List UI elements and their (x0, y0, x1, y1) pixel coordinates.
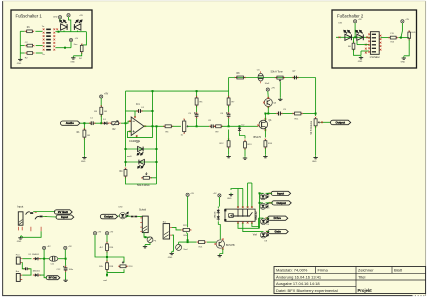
resistor R2 series trimmer (110, 122, 121, 125)
wire R1 to ground (83, 138, 85, 155)
resistor R11 output series (292, 112, 303, 115)
wire FS2 R8 bottom to ground (404, 40, 409, 56)
wire collector riser (218, 225, 220, 240)
svg-text:+9V: +9V (358, 19, 362, 21)
ground Q2 (218, 254, 222, 257)
ground power (63, 278, 67, 281)
pin marks J2 (140, 218, 142, 232)
wire bias vcc b down (218, 197, 220, 207)
transistor Q2 BC547 (216, 240, 224, 248)
resistor R9 series (214, 125, 223, 128)
resistor R14 source (264, 139, 267, 149)
wire feedback branch (126, 110, 137, 112)
resistor R16 divider upper (106, 242, 109, 253)
title block frame (274, 267, 426, 294)
wire divider bottom (106, 271, 108, 277)
wire FS2 LED row (336, 36, 370, 38)
wire rail A horizontal (126, 90, 229, 92)
connector J3 exp jack (163, 224, 170, 239)
wire drain output line (265, 113, 276, 115)
wire vactrol pin risers (237, 189, 239, 208)
supply symbol FS2 +9V b (401, 20, 404, 23)
svg-text:rot: rot (136, 141, 139, 144)
switch contact jack tip (26, 212, 34, 215)
LED L8 status (120, 212, 129, 219)
wire L8b wiring (260, 231, 264, 233)
svg-text:Output: Output (104, 215, 113, 219)
transistor Q1 BS170 (259, 120, 268, 129)
ground FS1 left (18, 58, 22, 61)
wire vcc to R3 (100, 98, 102, 106)
svg-text:GND: GND (168, 257, 173, 259)
svg-text:1N4148: 1N4148 (214, 212, 216, 219)
svg-text:+9V: +9V (405, 19, 409, 21)
potentiometer Volume (314, 117, 317, 128)
svg-text:1N4001: 1N4001 (33, 271, 41, 273)
ground J3 (170, 252, 174, 255)
wire clamp right branch down (244, 136, 246, 139)
wire input line (80, 122, 90, 124)
svg-text:D1 1N4001: D1 1N4001 (29, 254, 40, 256)
svg-text:1M: 1M (87, 135, 90, 137)
svg-text:GND: GND (17, 63, 22, 65)
diode D6 battery isolation (33, 273, 40, 276)
svg-text:Schalt: Schalt (139, 208, 146, 211)
pin marks FS2 switch right edge (380, 35, 382, 37)
wire volume wiper to output tag (321, 121, 331, 123)
svg-text:BS170: BS170 (254, 136, 262, 139)
wire J3 to ground (172, 235, 174, 251)
wire Q1 source down (264, 129, 266, 138)
wire vactrol to led group (252, 223, 260, 227)
wire C9 to R11 (282, 113, 292, 115)
capacitor C6 electrolytic on rail B (258, 71, 263, 83)
connector X1 Audio input tag (60, 121, 80, 125)
svg-text:+9V: +9V (97, 231, 101, 233)
wire R6 to fuzz pot (172, 125, 181, 127)
wire R1 branch down (83, 123, 85, 130)
wire FS2 vcc to led row (354, 23, 356, 37)
wire FS2 switch feeds (357, 44, 369, 46)
connector tag Output net (100, 214, 117, 219)
svg-text:IC1: IC1 (136, 103, 140, 106)
wire R21 to trimmer node (179, 241, 197, 243)
resistor R7 chain2 (227, 96, 230, 107)
resistor R1 input bias (83, 128, 86, 139)
wire R13 ground stub (244, 149, 246, 156)
wire Q3 to output line (267, 107, 269, 114)
LED L6 indicator (260, 203, 268, 209)
svg-text:vref: vref (103, 279, 107, 282)
connector tag Input net (56, 215, 74, 219)
supply symbol FS1 +9V b (67, 14, 70, 17)
LED FS1 LED2 (74, 20, 81, 30)
wire battery to D6 (22, 274, 31, 276)
wire LED row 2 (126, 161, 157, 163)
wire R22 down to base node (186, 232, 187, 242)
connector tag Drive vactrol (268, 216, 288, 220)
wire R9 to gate (222, 125, 258, 127)
wire L6 to tag2 (266, 202, 273, 204)
wire plus input down (128, 131, 132, 137)
resistor FS1 R1 (25, 30, 34, 33)
op-amp IC1 CA3080E (131, 117, 144, 136)
connector J1 input jack (18, 212, 23, 225)
capacitor C6a chain2 electrolytic (226, 112, 230, 118)
connector tag Output vactrol (272, 201, 291, 205)
ground tone wiper (278, 98, 282, 101)
wire contact to J2 (137, 216, 142, 218)
wire L5 to tag1 (266, 192, 273, 194)
wire rail A to rail B link (228, 78, 230, 92)
resistor FS1 R5 (80, 44, 83, 54)
svg-text:50k A Tone: 50k A Tone (271, 71, 284, 74)
resistor FS2 R6 (352, 41, 355, 51)
diode D7 bias (217, 209, 220, 215)
wire vcc to Q3 (267, 91, 270, 98)
page border left (2, 1, 4, 296)
svg-text:GND: GND (312, 161, 317, 163)
svg-text:Fußschalter 1: Fußschalter 1 (16, 14, 43, 19)
svg-text:Audio: Audio (66, 121, 74, 125)
wire FS1 left taps (20, 30, 24, 32)
svg-text:+9V: +9V (109, 231, 113, 233)
wire rail B horizontal (229, 77, 316, 79)
diode D5 polarity protection (33, 257, 40, 260)
wire vactrol bottom drops (238, 223, 260, 228)
wire pill to battery line (44, 275, 47, 278)
svg-text:Firma: Firma (318, 268, 329, 273)
trimmer P3 (147, 237, 153, 243)
wire C13 link (22, 262, 24, 269)
supply symbol +9V divider a (93, 232, 96, 235)
connector X2 Output tag (331, 120, 351, 125)
wire trimmer loop bottom (107, 269, 124, 272)
node A junction (100, 122, 102, 124)
wire chain2 mid (228, 106, 230, 112)
pin marks jack bottom (19, 227, 41, 231)
wire rail B down to volume (315, 78, 317, 117)
diode D8 bias (217, 215, 220, 221)
ground FS2 left (359, 56, 363, 59)
svg-text:Drive: Drive (274, 216, 282, 220)
wire clip right rail (156, 126, 158, 184)
transistor Q3 buffer (264, 99, 272, 107)
wire op-amp bottom leg (131, 137, 153, 139)
svg-text:Input: Input (277, 191, 284, 195)
wire chain1 drop (196, 91, 198, 97)
ground under R14 (263, 155, 267, 158)
supply symbol FS1 +9V a (58, 16, 61, 19)
resistor FS1 R2 (25, 44, 34, 47)
svg-text:+9V: +9V (213, 193, 217, 195)
switch contact jack ring (35, 216, 43, 220)
svg-text:9V Out: 9V Out (49, 277, 57, 280)
LED D4 clipping reverse (138, 159, 145, 168)
wire Q1 drain up (264, 114, 266, 121)
wire Q2 emitter to ground (220, 249, 223, 254)
trimmer P1 vref (118, 265, 128, 268)
svg-text:CA3080E: CA3080E (129, 139, 140, 143)
wire divider top (106, 235, 108, 244)
svg-text:+9V: +9V (47, 246, 51, 248)
supply symbol +9V bias b (218, 194, 221, 197)
svg-text:Zeichner: Zeichner (358, 268, 374, 273)
connector J2 switch jack (142, 216, 148, 233)
supply symbol +9V power b (64, 246, 67, 249)
connector X3 DC power (16, 257, 20, 264)
svg-text:+9V: +9V (271, 87, 275, 89)
ground mid cluster (143, 245, 147, 248)
wire R3 down to node A (100, 115, 102, 123)
switch FS1 S1 pin marks left column (43, 28, 45, 30)
svg-text:+9V: +9V (79, 15, 83, 17)
svg-text:Input: Input (61, 215, 68, 219)
svg-text:GND: GND (81, 161, 86, 163)
LED L8b indicator (260, 232, 268, 238)
wire FS2 switch to R7 (381, 37, 389, 39)
svg-text:Output: Output (276, 201, 286, 205)
supply symbol FS1 +9V c (69, 38, 72, 41)
wire op-amp output (144, 125, 160, 127)
wire bias vcc a down (187, 196, 189, 227)
connector tag Input vactrol (271, 191, 290, 195)
wire D6 up to vcc node (40, 259, 44, 275)
svg-text:50 B Volume: 50 B Volume (310, 120, 313, 134)
wire fuzz pot to C8 (187, 125, 209, 127)
svg-text:NSL32: NSL32 (254, 211, 258, 220)
svg-text:Projekt: Projekt (358, 288, 373, 293)
svg-text:Vref: Vref (183, 248, 187, 251)
LED FS2 LED3 (344, 31, 351, 41)
supply symbol +9V input (100, 95, 103, 98)
wire feedback to right leg (142, 110, 152, 112)
svg-text:+9V: +9V (68, 246, 72, 248)
capacitor C5 chain1 electrolytic (194, 112, 198, 118)
svg-text:Dim: Dim (74, 44, 78, 46)
wire Q2 base line (207, 241, 216, 243)
wire R11 to volume (303, 113, 316, 115)
wire chain2 to signal line (228, 118, 230, 126)
svg-text:Fußschalter 2: Fußschalter 2 (337, 14, 364, 19)
wire stage2 signal line (160, 125, 164, 127)
svg-text:Bat: Bat (16, 270, 20, 273)
LED D3 red clipping (137, 146, 143, 155)
wire LED to contact (126, 215, 131, 217)
svg-text:Titel: Titel (358, 274, 366, 279)
wire clip left rail (125, 123, 127, 166)
potentiometer Drive (141, 176, 151, 179)
wire D2 bottom branch (240, 133, 246, 136)
wire FS1 R5 bottom to ground (73, 53, 81, 56)
resistor FS2 R7 (388, 36, 398, 39)
wire FS1 LED centre feed (69, 17, 71, 32)
svg-text:LED: LED (53, 17, 58, 19)
resistor R4 clip load (124, 168, 127, 179)
wire FS1 LED row (56, 31, 87, 33)
capacitor C7 on rail B (292, 76, 298, 80)
supply symbol FS2 +9V a (354, 20, 357, 23)
switch FS2 S2 body (370, 32, 379, 55)
frame box Fusschalter 2 (332, 10, 417, 68)
svg-text:+9V: +9V (190, 193, 194, 195)
wire FS1 left bus (19, 31, 21, 57)
supply symbol +9V buffer (266, 88, 269, 91)
trimmer P4 bias (176, 244, 182, 250)
wire FS2 R7 to LED resistor (398, 37, 409, 39)
wire P3 to ground (145, 243, 150, 245)
page border bottom (2, 295, 412, 297)
svg-text:LED: LED (411, 32, 415, 34)
svg-text:GND: GND (401, 61, 406, 63)
resistor R12 chain2 ground leg (227, 139, 230, 149)
wire tag column riser (259, 193, 261, 228)
wire drive pot to rail (151, 177, 157, 179)
LED L7 indicator (260, 218, 268, 224)
switch FS1 S1 contacts (46, 29, 51, 31)
capacitor C1 (89, 121, 95, 125)
switch contact mid (131, 216, 137, 218)
frame box Fusschalter 1 (11, 10, 92, 68)
wire divider left leg (95, 235, 107, 257)
wire FS1 LED row right leg (82, 32, 87, 45)
supply symbol +9V power a (43, 246, 46, 249)
svg-text:Bat: Bat (163, 220, 167, 223)
wire R14 ground stub (264, 148, 266, 154)
capacitor C8 coupling (209, 124, 215, 128)
svg-text:1.Schalter: 1.Schalter (370, 56, 381, 59)
wire chain2 drop (228, 91, 230, 97)
connector tag GND 9V pill (46, 276, 60, 280)
wire FS2 vcc b down (401, 23, 403, 38)
resistor R18 divider lower (106, 261, 109, 272)
wire R2 to op-amp (121, 121, 131, 123)
pin marks vactrol top (237, 206, 239, 208)
ground under R12 (226, 155, 230, 158)
svg-text:GND: GND (227, 198, 232, 200)
pin marks J3 (170, 227, 172, 235)
wire op-amp top pin riser (134, 111, 136, 118)
page border top (3, 0, 426, 2)
pin marks FS2 switch column (365, 44, 367, 46)
wire jack ring to tag (43, 216, 57, 219)
resistor FS2 R8 vertical (408, 30, 411, 40)
wire L5 top (260, 192, 264, 195)
switch FS1 S1 pin marks right column (53, 28, 55, 30)
wire L7 wiring (259, 217, 264, 219)
potentiometer Tone on rail B (275, 76, 285, 79)
wire vactrol top rail (233, 188, 244, 190)
wire L7 to tag3 (266, 217, 269, 219)
wire trimmer loop right (107, 257, 124, 263)
optocoupler IC2 vactrol body (224, 209, 255, 221)
resistor R8 on rail B (235, 76, 246, 79)
svg-text:GND: GND (70, 61, 75, 63)
capacitor C13 small across input (23, 267, 29, 270)
svg-text:GND: GND (358, 61, 363, 63)
pin marks FS2 led row (339, 36, 341, 38)
ground under R13 (243, 156, 247, 159)
page border right (425, 1, 427, 296)
ground FS1 right (71, 56, 75, 59)
svg-text:Vref: Vref (253, 234, 257, 237)
wire op-amp bottom pin stub (136, 136, 138, 138)
svg-text:Maßstab: 74,00%: Maßstab: 74,00% (276, 268, 308, 273)
diode D2 gate clamp (238, 126, 241, 132)
capacitor C4 feedback (136, 109, 142, 113)
resistor R21 base (197, 241, 207, 244)
svg-text:Blatt: Blatt (394, 268, 403, 273)
wire P4 up to base line (178, 242, 180, 244)
svg-text:Pwr: Pwr (16, 253, 20, 256)
wire feedback right leg (152, 91, 154, 138)
ground FS2 right (402, 56, 406, 59)
wire chain1 mid (196, 106, 198, 112)
wire L8b to tag4 (266, 231, 269, 233)
supply symbol +9V bias a (186, 193, 189, 196)
svg-text:BC547B: BC547B (226, 245, 235, 247)
wire dc to D5 (22, 258, 31, 260)
wire LED row 1 (126, 148, 157, 150)
pin marks vactrol bottom (237, 222, 239, 224)
LED L5 indicator (260, 193, 268, 199)
wire vcc b down (64, 250, 66, 259)
wire output tag to LED (118, 215, 120, 217)
wire FS1 switch to vcc c (56, 47, 72, 49)
wire D5 to vcc node (40, 258, 49, 260)
ground under volume (313, 156, 317, 159)
wire volume bottom to ground (315, 126, 317, 156)
svg-text:Änderung 16.04.16 13:41: Änderung 16.04.16 13:41 (276, 274, 322, 279)
svg-text:Output: Output (335, 120, 345, 124)
supply symbol +9V divider b (105, 232, 108, 235)
wire clip bottom rail (126, 177, 157, 184)
wire op-amp plus input stub (128, 130, 132, 132)
diode D1 (102, 122, 109, 125)
wire J3 upper pin to R22 (172, 227, 181, 230)
connector tag 9V Batt (54, 210, 72, 214)
node R1 junction (83, 122, 85, 124)
wire diode column (217, 207, 219, 209)
svg-text:50k A Drive: 50k A Drive (137, 184, 150, 187)
resistor FS1 R3 (25, 52, 34, 55)
wire tone wiper down (279, 82, 281, 98)
svg-text:LED: LED (119, 207, 124, 209)
pin marks FS2 switch left edge (368, 33, 370, 35)
resistor R22 bias riser (181, 228, 191, 231)
wire C12 stubs (65, 259, 67, 266)
potentiometer Fuzz inline (183, 119, 186, 135)
wire jack sleeve to ground (21, 231, 41, 237)
svg-text:Datei: BFX Blueberry expe: Datei: BFX Blueberry experimental (276, 288, 338, 293)
LED FS1 LED1 (60, 20, 67, 30)
wire FS1 vcc a stub (59, 19, 61, 21)
connector X4 battery clip (16, 274, 20, 282)
wire R12 ground stub (228, 130, 230, 141)
wire L6 top (260, 202, 264, 204)
resistor R5 chain1 (195, 96, 198, 107)
wire chain1 to signal line (196, 118, 198, 126)
svg-text:1M: 1M (104, 111, 107, 113)
capacitor C11 electrolytic horizontal (49, 256, 57, 261)
resistor R6 inline (163, 125, 173, 128)
wire divider mid node (106, 252, 108, 263)
svg-text:+9V: +9V (104, 94, 109, 96)
ground input jack (18, 236, 22, 239)
ground input bias (82, 156, 86, 159)
svg-text:Input: Input (17, 204, 23, 208)
pin mark FS1 top extra (56, 28, 58, 30)
